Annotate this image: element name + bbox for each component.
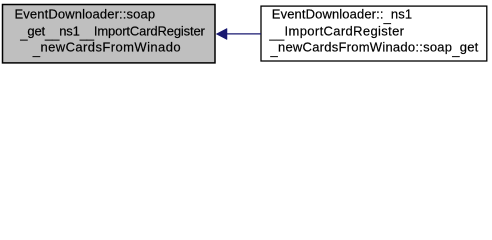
svg-text:EventDownloader::soap: EventDownloader::soap	[15, 7, 156, 22]
